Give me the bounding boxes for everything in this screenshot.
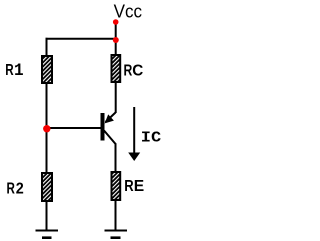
- current arrow IC: [128, 107, 140, 161]
- svg-text:IC: IC: [141, 130, 162, 146]
- svg-text:R: R: [5, 62, 13, 79]
- resistor RE: [112, 172, 121, 200]
- wire base horizontal: [47, 127, 101, 129]
- wire left vertical R2 to ground: [46, 201, 48, 231]
- ground left: [36, 231, 59, 238]
- svg-text:Vcc: Vcc: [114, 1, 142, 21]
- base bar: [101, 113, 105, 141]
- wire top horizontal: [46, 38, 117, 40]
- wire right vertical RE to ground: [115, 200, 117, 231]
- ground right: [105, 231, 128, 238]
- svg-text:R: R: [124, 178, 133, 195]
- node junction at Vcc rail: [113, 37, 119, 43]
- svg-text:R: R: [124, 62, 133, 79]
- resistor RC: [112, 55, 121, 82]
- wire left vertical to R1: [46, 38, 48, 56]
- svg-text:C: C: [132, 62, 143, 79]
- wire Vcc stub (right vertical, top): [115, 22, 117, 54]
- resistor R1: [42, 56, 52, 83]
- transistor Q1: [101, 113, 117, 145]
- wire left vertical R1 to R2: [46, 83, 48, 173]
- svg-text:R: R: [7, 181, 15, 198]
- wire emitter vertical to RE: [115, 144, 117, 173]
- resistor R2: [42, 173, 52, 201]
- arrowhead on collector lead: [105, 114, 114, 123]
- node base junction dot: [43, 125, 50, 132]
- svg-text:1: 1: [14, 62, 24, 81]
- emitter lead diagonal: [104, 131, 116, 145]
- collector lead diagonal: [106, 113, 116, 123]
- svg-text:2: 2: [16, 181, 24, 198]
- node Vcc terminal dot: [113, 19, 119, 25]
- svg-text:E: E: [134, 178, 144, 195]
- wire collector vertical: [115, 82, 117, 113]
